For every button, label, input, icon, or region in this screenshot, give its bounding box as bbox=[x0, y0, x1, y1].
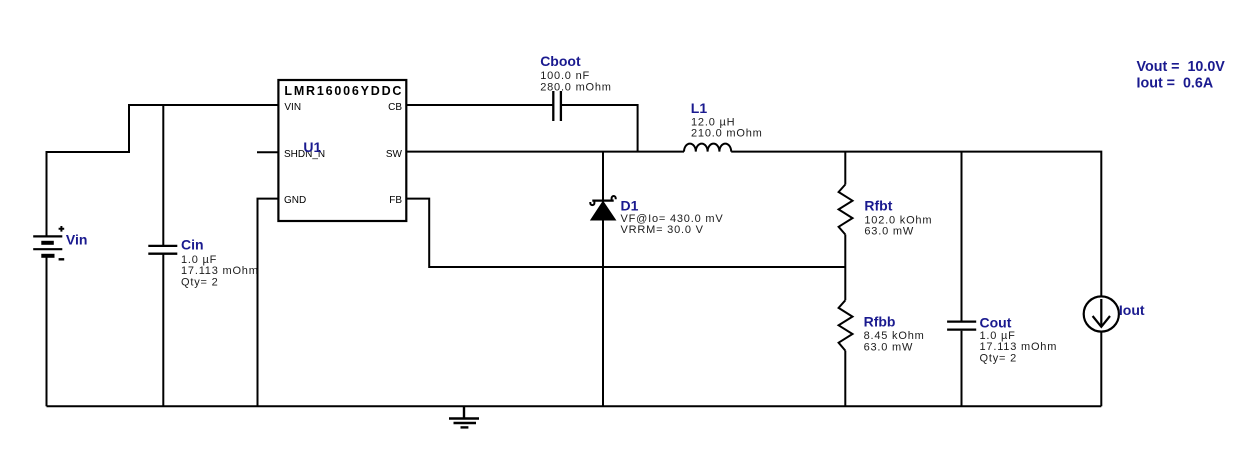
diode D1 (schottky) bbox=[590, 196, 615, 220]
svg-text:Vin: Vin bbox=[66, 232, 88, 248]
wire: Cout branch bbox=[961, 152, 963, 321]
wire: Cin branch bottom bbox=[162, 255, 164, 407]
current source Iout bbox=[1084, 296, 1119, 331]
inductor L1 bbox=[684, 144, 731, 152]
wire: FB pin to feedback node bbox=[406, 199, 845, 267]
svg-text:12.0 µH: 12.0 µH bbox=[691, 116, 735, 128]
svg-text:U1: U1 bbox=[303, 139, 321, 155]
resistor Rfbt bbox=[839, 185, 853, 235]
svg-text:VIN: VIN bbox=[284, 102, 301, 113]
wire: GND pin to ground rail bbox=[258, 199, 279, 407]
svg-text:1.0 µF: 1.0 µF bbox=[181, 254, 217, 266]
battery Vin bbox=[33, 226, 64, 259]
op-amp-ic U1 box bbox=[278, 80, 406, 221]
svg-text:Vout = 10.0V: Vout = 10.0V bbox=[1137, 59, 1226, 75]
wire: SHDN_N stub bbox=[257, 151, 278, 153]
svg-text:Iout = 0.6A: Iout = 0.6A bbox=[1137, 76, 1214, 92]
wire: Rfbt/Rfbb branch bbox=[844, 152, 846, 185]
wire: D1 branch bbox=[602, 152, 604, 407]
wire: Iout bottom to rail bbox=[1100, 332, 1102, 407]
svg-text:LMR16006YDDC: LMR16006YDDC bbox=[284, 84, 403, 98]
wire: battery bottom to ground rail bbox=[46, 257, 48, 406]
svg-text:Qty= 2: Qty= 2 bbox=[181, 277, 219, 289]
svg-text:VRRM= 30.0 V: VRRM= 30.0 V bbox=[621, 224, 704, 236]
svg-text:Iout: Iout bbox=[1119, 302, 1145, 318]
wire: bottom ground rail bbox=[47, 405, 1102, 407]
capacitor Cboot bbox=[553, 91, 561, 121]
wire: battery top to VIN node bbox=[47, 105, 279, 236]
wire: CB pin to Cboot left plate bbox=[406, 104, 552, 106]
svg-text:SW: SW bbox=[386, 149, 403, 160]
svg-text:L1: L1 bbox=[691, 100, 708, 116]
svg-text:210.0 mOhm: 210.0 mOhm bbox=[691, 128, 763, 140]
wire: SW net from IC to L1 bbox=[406, 151, 684, 153]
svg-text:Rfbb: Rfbb bbox=[864, 314, 896, 330]
svg-text:63.0 mW: 63.0 mW bbox=[864, 226, 914, 238]
svg-text:Qty= 2: Qty= 2 bbox=[980, 352, 1018, 364]
svg-text:Cin: Cin bbox=[181, 236, 204, 252]
capacitor Cin bbox=[148, 246, 177, 254]
wire: Cin branch top bbox=[162, 105, 164, 245]
svg-text:GND: GND bbox=[284, 195, 306, 206]
svg-text:Rfbt: Rfbt bbox=[864, 197, 892, 213]
svg-text:Cboot: Cboot bbox=[540, 53, 581, 69]
svg-text:102.0 kOhm: 102.0 kOhm bbox=[864, 214, 932, 226]
svg-text:63.0 mW: 63.0 mW bbox=[864, 341, 914, 353]
ground bbox=[449, 406, 479, 427]
svg-text:280.0 mOhm: 280.0 mOhm bbox=[540, 81, 612, 93]
svg-text:FB: FB bbox=[389, 195, 402, 206]
svg-text:Cout: Cout bbox=[980, 314, 1012, 330]
resistor Rfbb bbox=[839, 300, 853, 350]
wire: L1 right to output node and right branch down bbox=[731, 152, 1101, 297]
capacitor Cout bbox=[947, 322, 976, 330]
svg-text:17.113 mOhm: 17.113 mOhm bbox=[181, 265, 259, 277]
svg-text:D1: D1 bbox=[621, 197, 639, 213]
svg-text:100.0 nF: 100.0 nF bbox=[540, 70, 590, 82]
wire: Cboot right plate down to SW net bbox=[562, 105, 638, 152]
svg-text:CB: CB bbox=[388, 102, 402, 113]
svg-text:8.45 kOhm: 8.45 kOhm bbox=[864, 330, 925, 342]
svg-text:17.113 mOhm: 17.113 mOhm bbox=[980, 341, 1058, 353]
